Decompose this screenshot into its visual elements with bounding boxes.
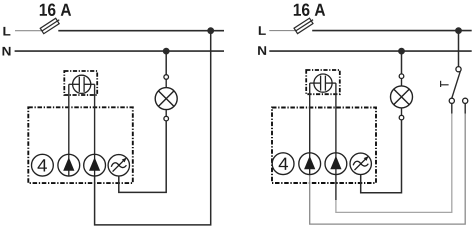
wire: L feed into fuse (left, thin grey) [15,30,42,32]
terminal dimmer output (right) [350,153,371,174]
wire: N line (right) [269,50,471,52]
sensor enclosure (right small dashed box) [306,70,340,94]
junction dot on N (left) [163,48,170,55]
lamp top terminal (right) [399,74,404,79]
wire: grey run terminal arrow A to switch lower-right (right) [310,113,466,224]
fuse 16A (left) [40,17,61,34]
wire: terminal arrow B stub down (right, black then grey handled below) [335,175,337,200]
wire: sensor left lead down to terminal arrow A (right) [309,83,311,153]
wire: lamp body to bottom terminal (right) [401,108,403,116]
lamp E2 (right) [391,86,413,108]
device enclosure (right dashed box) [272,108,376,184]
wire: lamp bottom down, left, up into terminal dimmer (left) [119,121,166,192]
wire: lamp top terminal to lamp body (left) [165,79,167,87]
junction dot on L (left) [207,27,214,34]
wire: sensor right lead down to terminal arrow B (right) [335,83,337,153]
junction dot on N (right) [398,48,405,55]
terminal arrow A (right) [299,153,321,175]
terminal 4 (right) [272,153,294,175]
lamp top terminal (left) [164,75,169,80]
terminal arrow A (left) [58,154,80,176]
net label L (left) [3,27,10,36]
wire: L feed into fuse (right, thin grey) [269,30,295,32]
wire: switch lower-right terminal stub (right) [464,103,466,113]
wire: N junction down to lamp (right) [401,51,403,74]
lamp bottom terminal (left) [164,116,169,121]
wire: sensor left lead down to terminal arrow A (left) [68,84,70,154]
wire: L line (right) [312,30,472,32]
fuse 16A (right) [294,17,315,34]
switch S1 blade (right) [452,70,461,98]
junction dot on L (right) [455,27,462,34]
wire: sensor right lead down to terminal arrow B (left) [94,84,96,154]
wire: L junction down to switch (right) [458,31,460,67]
wire: N junction down to lamp (left) [165,51,167,75]
wire: lamp top terminal to lamp body (right) [401,79,403,87]
wire: N line (left) [15,50,224,52]
wire: L line (left) [58,30,224,32]
lamp E1 (left) [155,88,177,110]
net label N (right) [258,46,266,55]
net label N (left) [3,47,11,56]
lamp bottom terminal (right) [399,115,404,120]
sensor element (right): circle with capacitor bars [310,74,336,92]
sensor enclosure (left small dashed box) [64,71,97,95]
wire: lamp body to bottom terminal (left) [165,110,167,117]
switch S1 actuator (right) [441,81,449,87]
device enclosure (left dashed box) [28,107,133,183]
wire: switch lower-left terminal stub (right) [451,103,453,113]
switch S1 top terminal (right) [456,67,461,72]
terminal arrow B (right) [325,153,347,175]
terminal 4 (left) [32,154,54,176]
sensor element (left): circle with capacitor bars [69,75,95,93]
terminal arrow B (left) [84,154,106,176]
terminal dimmer output (left) [108,155,129,176]
value label 16 A (right) [294,4,325,16]
wire: L junction down, along bottom, up to terminal arrow B (left) [95,31,211,225]
net label L (right) [259,26,266,35]
wire: lamp bottom down, left, up into terminal dimmer (right) [361,120,402,193]
switch S1 lower-left terminal (right) [449,98,454,103]
wire: grey run terminal arrow B to switch lower-left (right) [336,113,452,212]
switch S1 lower-right terminal (right) [463,98,468,103]
value label 16 A (left) [40,4,71,16]
